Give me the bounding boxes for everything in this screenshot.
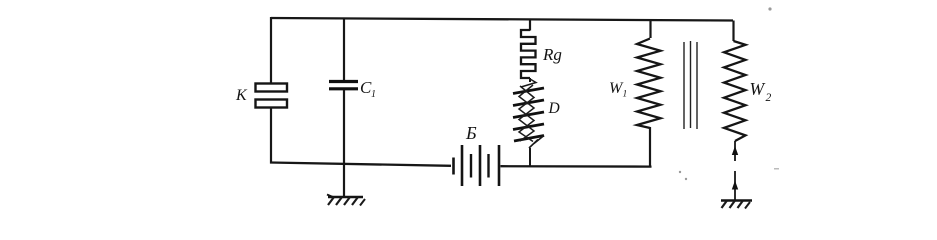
svg-text:1: 1 — [371, 89, 376, 100]
wire top bus — [271, 18, 733, 21]
wire C1 branch lower to ground — [343, 90, 345, 196]
ground (right, under W2) — [721, 201, 752, 209]
wire detector to bottom bus — [529, 148, 531, 166]
svg-text:K: K — [235, 87, 248, 104]
wire W1 top stub — [649, 21, 651, 39]
transformer core lines — [684, 41, 697, 129]
resistor W2 (zigzag) — [724, 41, 746, 141]
svg-text:2: 2 — [766, 92, 772, 104]
capacitor C1 — [329, 82, 358, 89]
wire left vertical lower — [270, 107, 272, 164]
wire W1 bottom — [649, 127, 651, 167]
wire W2 top corner — [732, 21, 734, 42]
detector D (spring / crossed zigzag) — [513, 79, 544, 148]
wire C1 branch upper — [343, 19, 345, 81]
wire bottom bus left segment — [270, 163, 451, 166]
resistor W1 (zigzag) — [637, 39, 661, 129]
resistor Rg (meander) — [521, 30, 536, 78]
svg-text:Rg: Rg — [542, 45, 562, 64]
svg-text:Б: Б — [465, 123, 477, 143]
battery B — [454, 145, 500, 186]
svg-text:1: 1 — [623, 90, 628, 100]
wire ground lead with arrow — [732, 171, 738, 200]
wire Rg branch stub — [529, 20, 531, 31]
svg-text:W: W — [750, 79, 766, 99]
scan speck dots — [679, 7, 779, 180]
crystal K plates — [256, 84, 288, 108]
wire left vertical upper (to crystal K) — [270, 17, 272, 84]
wire W2 lower segment with arrow — [732, 141, 738, 161]
ground (left, under C1 branch) — [327, 195, 365, 206]
wire Rg to detector — [529, 78, 531, 82]
svg-text:D: D — [548, 100, 560, 117]
wire bottom bus right segment — [501, 165, 652, 168]
